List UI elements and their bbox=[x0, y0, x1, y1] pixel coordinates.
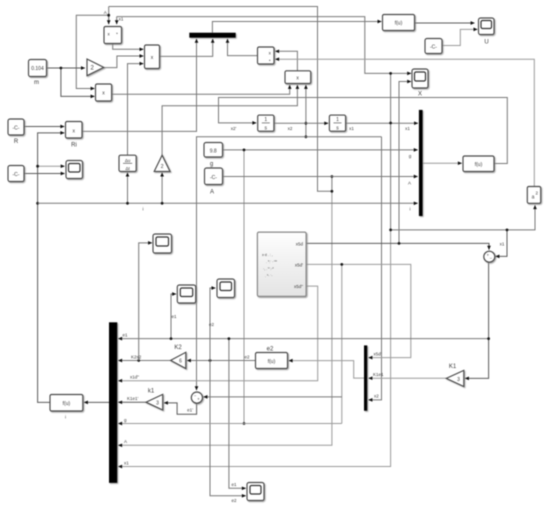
wire i long line to mux3 bbox=[38, 202, 418, 204]
Fcn U f(u) bbox=[383, 15, 415, 31]
mux3 bar bbox=[419, 110, 423, 216]
svg-text:R: R bbox=[14, 139, 19, 145]
gain K1 bbox=[446, 370, 464, 386]
sum upper bbox=[484, 251, 495, 262]
svg-text:·, .ˈ˟ :·˟: ·, .ˈ˟ :·˟ bbox=[263, 267, 275, 271]
wire Fcn x2p loop to integrator1 bbox=[219, 98, 508, 164]
svg-text:. ˟· ˈ·: . ˟· ˈ· bbox=[265, 274, 273, 278]
wire e1 down to bottom scope bbox=[229, 339, 246, 489]
wire scope C tap e2 bbox=[210, 288, 215, 361]
wire flipped product out to mux1 in3 bbox=[228, 39, 258, 56]
svg-text:K1e1: K1e1 bbox=[373, 372, 384, 377]
svg-text:x2: x2 bbox=[288, 126, 293, 131]
svg-text:U: U bbox=[484, 40, 488, 46]
wire net x1 top run to scope X bbox=[346, 122, 418, 124]
wire const C to scope U in2 bbox=[442, 29, 477, 45]
Fcn x2p f(u) bbox=[463, 156, 494, 172]
wire const C2 to scope R in2 bbox=[24, 173, 65, 175]
gain 2 up bbox=[154, 155, 170, 171]
wire 0.104 to gain 2 bbox=[47, 67, 85, 69]
svg-text:K1: K1 bbox=[449, 364, 457, 370]
gain 2 bbox=[87, 59, 104, 76]
wire e2 down to bottom scope bbox=[210, 361, 246, 496]
sum lower bbox=[191, 392, 202, 403]
svg-text:1: 1 bbox=[336, 117, 339, 123]
wire x5dpp to bar1 x1dpp bbox=[118, 286, 318, 381]
wire wide product out to flipped product in1 bbox=[275, 51, 297, 71]
svg-text:*: * bbox=[116, 32, 118, 37]
constant R bbox=[8, 119, 24, 135]
wire gain2 to product3 in2 bbox=[104, 56, 144, 68]
wire gain k1 out to bar1 bbox=[118, 401, 146, 403]
svg-text:x1: x1 bbox=[124, 460, 129, 465]
svg-text:Δu: Δu bbox=[125, 158, 131, 163]
wire mux1 output to Fcn U bbox=[212, 22, 381, 33]
svg-text:A: A bbox=[124, 439, 127, 444]
node A junction dots bbox=[331, 190, 334, 193]
wire gain2up out to wide product in2 bbox=[162, 85, 297, 155]
svg-text:-C-: -C- bbox=[13, 126, 20, 132]
bar1 demux bbox=[109, 322, 117, 483]
product flipped bbox=[258, 47, 275, 64]
wire upper sum out e1 bbox=[465, 262, 489, 379]
svg-text:g: g bbox=[210, 162, 213, 168]
wire x5dp to bar2 in1 bbox=[306, 264, 411, 357]
wire 0.104 branch to product in2 bbox=[61, 68, 95, 96]
svg-text:f(u): f(u) bbox=[475, 162, 483, 168]
svg-text:a: a bbox=[532, 195, 535, 201]
svg-text:x5d'': x5d'' bbox=[294, 284, 303, 289]
wire 9.8 to mux3 g bbox=[223, 149, 418, 151]
svg-text:. ˟:ˈ ·ˈ˟˟: . ˟:ˈ ·ˈ˟˟ bbox=[266, 260, 278, 264]
svg-text:m: m bbox=[34, 80, 39, 86]
svg-text:*: * bbox=[269, 59, 271, 64]
svg-text:x1: x1 bbox=[349, 126, 354, 131]
wire const A to mux3 A bbox=[223, 176, 418, 178]
wire x1 branch to upper sum bbox=[496, 230, 508, 257]
svg-text:x1: x1 bbox=[500, 241, 505, 246]
svg-text:f(u): f(u) bbox=[63, 401, 71, 407]
wire Fcn e2 out to gain K2 bbox=[187, 360, 256, 362]
svg-text:9.8: 9.8 bbox=[210, 149, 217, 155]
wire x2 line to lower sum and bar2 bbox=[197, 137, 382, 390]
svg-text:A: A bbox=[408, 181, 411, 186]
svg-text:k1: k1 bbox=[148, 389, 155, 395]
scope X bbox=[412, 69, 428, 88]
wire product3 out to mux1 in2 bbox=[160, 39, 213, 57]
wire i to scope R in1 bbox=[38, 165, 65, 167]
constant g 9.8 bbox=[204, 143, 223, 158]
svg-text:x1: x1 bbox=[119, 16, 124, 21]
svg-text:e2: e2 bbox=[267, 347, 274, 353]
svg-text:3: 3 bbox=[457, 377, 460, 383]
wire g branch down bbox=[243, 150, 245, 424]
derivative block bbox=[119, 155, 136, 171]
scope U bbox=[479, 18, 495, 35]
wire integrator1 to integrator2 bbox=[274, 122, 328, 124]
wire gain K1 out to bar2 bbox=[369, 377, 447, 379]
wire net A into top product in1 bbox=[108, 15, 110, 24]
wire lower sum out loop to gain k1 bbox=[164, 403, 197, 414]
wire i to derivative input bbox=[127, 173, 129, 204]
Fcn i f(u) bbox=[50, 395, 83, 412]
wire x5d branch to scope X in2 bbox=[399, 82, 411, 244]
svg-text:2: 2 bbox=[161, 164, 164, 170]
constant CU bbox=[425, 39, 442, 54]
svg-text:0.104: 0.104 bbox=[31, 66, 44, 72]
svg-text:e1: e1 bbox=[231, 482, 237, 487]
wire g row to bar1 bbox=[118, 423, 342, 425]
svg-text:A: A bbox=[104, 10, 107, 15]
product3 bbox=[145, 45, 160, 69]
svg-text:-C-: -C- bbox=[13, 172, 20, 178]
svg-text:i: i bbox=[410, 207, 411, 212]
svg-text:e2: e2 bbox=[244, 355, 250, 360]
constant C2 bbox=[8, 166, 24, 182]
wire mux3 out to Fcn x2p bbox=[423, 162, 462, 164]
svg-text:x2: x2 bbox=[374, 394, 379, 399]
svg-text:e1: e1 bbox=[171, 314, 177, 319]
wire i net vertical bbox=[38, 133, 65, 403]
svg-text:i: i bbox=[143, 207, 144, 212]
wire top product out to product3 in1 bbox=[113, 44, 144, 50]
wire net A top run bbox=[109, 7, 332, 192]
svg-text:f(u): f(u) bbox=[395, 21, 403, 27]
product top divide bbox=[104, 27, 122, 44]
svg-text:A: A bbox=[210, 190, 214, 196]
svg-text:e2: e2 bbox=[209, 322, 215, 327]
wire derivative out to product3 in3 bbox=[128, 64, 144, 156]
math square a2 bbox=[527, 187, 540, 204]
bar2 mux bbox=[364, 345, 367, 410]
svg-text:3: 3 bbox=[156, 401, 159, 407]
svg-text:x2': x2' bbox=[231, 126, 237, 131]
product Xm bbox=[96, 84, 112, 101]
wire x2 branch to wide product in3 bbox=[305, 85, 307, 137]
wire x5d to upper sum bbox=[306, 243, 489, 249]
scope B e1 bbox=[177, 285, 195, 303]
svg-text:x1: x1 bbox=[405, 126, 410, 131]
svg-text:x1d'': x1d'' bbox=[130, 375, 139, 380]
mux1 bar bbox=[189, 33, 235, 38]
wire gain K2 out to bar1 K2s2 bbox=[118, 360, 170, 362]
svg-text:X: X bbox=[418, 92, 422, 98]
svg-text:Δt: Δt bbox=[125, 166, 130, 171]
wire Fcn U to scope U bbox=[415, 22, 475, 24]
svg-text:e1: e1 bbox=[123, 333, 129, 338]
wire scope B tap e1 bbox=[171, 294, 176, 339]
wire Ri out to mux1 in1 bbox=[82, 39, 197, 131]
scope R bbox=[66, 161, 83, 179]
svg-text:-C-: -C- bbox=[210, 175, 217, 181]
scope C e2 bbox=[217, 279, 235, 298]
svg-text:6: 6 bbox=[179, 359, 182, 365]
wire bar1 out to Fcn i bbox=[84, 401, 109, 403]
wire x5dp branch to lower sum bbox=[341, 264, 343, 423]
constant A bbox=[205, 168, 223, 185]
svg-text:Ri: Ri bbox=[71, 143, 77, 149]
svg-text:-C-: -C- bbox=[430, 45, 437, 51]
wire bar2 out to Fcn e2 bbox=[289, 361, 364, 379]
wire net A to product m inputs bbox=[76, 7, 108, 89]
svg-text:x5d: x5d bbox=[296, 241, 304, 246]
product wide bbox=[285, 71, 311, 84]
integrator 1 bbox=[258, 115, 274, 132]
svg-text:K2: K2 bbox=[174, 345, 182, 351]
svg-text:i: i bbox=[65, 415, 66, 420]
svg-text:f(u): f(u) bbox=[268, 359, 276, 365]
Fcn e2 f(u) bbox=[256, 353, 288, 369]
wire scope A tap bbox=[139, 243, 152, 361]
svg-text:x5d': x5d' bbox=[374, 351, 382, 356]
svg-text:K2s2: K2s2 bbox=[131, 354, 142, 359]
constant m 0.104 bbox=[29, 60, 47, 77]
subsystem x5d bbox=[257, 232, 306, 296]
scope A bbox=[153, 234, 172, 253]
scope bottom bbox=[247, 483, 264, 501]
svg-text:x5d': x5d' bbox=[295, 262, 303, 267]
product Ri bbox=[66, 122, 83, 139]
wire const R to Ri in1 bbox=[24, 126, 64, 128]
wire net x1 vertical branch bbox=[391, 73, 535, 230]
svg-text:e2: e2 bbox=[231, 498, 237, 503]
svg-text:K1e1': K1e1' bbox=[127, 396, 139, 401]
gain K2 bbox=[171, 352, 186, 368]
gain k1 bbox=[146, 394, 163, 410]
wire a2 out to flipped product in2 bbox=[275, 59, 534, 186]
svg-text:1: 1 bbox=[264, 117, 267, 123]
svg-text:e1': e1' bbox=[187, 408, 193, 413]
integrator 2 bbox=[329, 115, 345, 132]
svg-text:x·d . : ,: x·d . : , bbox=[262, 253, 273, 257]
wire i to gain2up input bbox=[161, 173, 163, 204]
wire product m out to wide product in1 bbox=[112, 85, 290, 94]
